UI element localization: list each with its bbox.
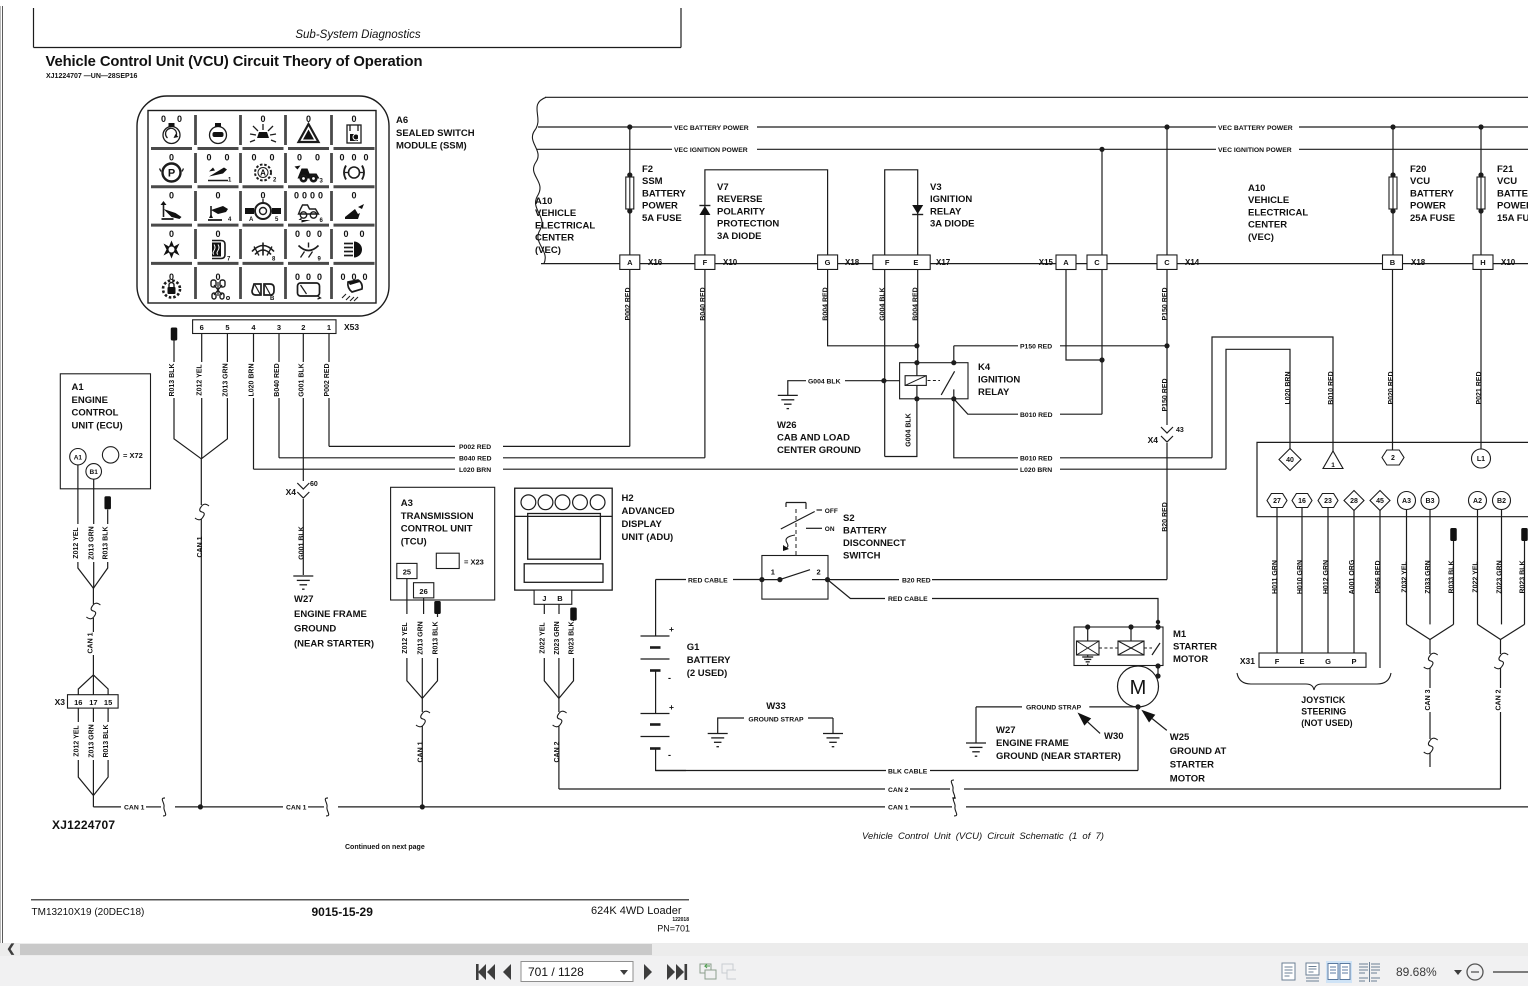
svg-text:V3: V3 — [930, 182, 942, 193]
svg-text:-: - — [668, 673, 671, 683]
svg-text:Z033 GRN: Z033 GRN — [1425, 560, 1432, 593]
svg-text:G001 BLK: G001 BLK — [298, 363, 305, 396]
svg-text:F21: F21 — [1497, 164, 1514, 175]
svg-text:122018: 122018 — [672, 917, 689, 923]
svg-text:60: 60 — [310, 481, 318, 488]
svg-text:IGNITION: IGNITION — [930, 194, 972, 205]
svg-text:UNIT (ECU): UNIT (ECU) — [72, 420, 123, 431]
svg-text:MOTOR: MOTOR — [1170, 773, 1205, 784]
svg-text:X18: X18 — [845, 258, 860, 267]
svg-text:BATTERY: BATTERY — [843, 526, 887, 537]
svg-text:REVERSE: REVERSE — [717, 194, 762, 205]
svg-text:TM13210X19 (20DEC18): TM13210X19 (20DEC18) — [32, 907, 145, 918]
svg-text:40: 40 — [1286, 457, 1294, 464]
svg-text:(2 USED): (2 USED) — [687, 668, 728, 679]
svg-text:B1: B1 — [90, 469, 99, 476]
svg-text:F: F — [885, 258, 890, 267]
svg-text:L020 BRN: L020 BRN — [1020, 467, 1052, 474]
svg-text:VEC IGNITION POWER: VEC IGNITION POWER — [1218, 147, 1292, 154]
svg-text:0: 0 — [315, 153, 320, 163]
svg-text:R023 BLK: R023 BLK — [569, 621, 576, 654]
svg-text:VCU: VCU — [1497, 176, 1517, 187]
svg-text:G: G — [1325, 657, 1331, 666]
svg-text:0: 0 — [215, 229, 220, 239]
svg-text:25: 25 — [403, 568, 411, 577]
svg-text:X4: X4 — [1148, 435, 1159, 445]
svg-text:G004 BLK: G004 BLK — [808, 378, 841, 385]
svg-text:DISCONNECT: DISCONNECT — [843, 538, 906, 549]
svg-text:B20 RED: B20 RED — [902, 577, 931, 584]
svg-text:BATTERY: BATTERY — [1410, 188, 1454, 199]
svg-text:CENTER: CENTER — [535, 233, 574, 244]
svg-text:X17: X17 — [936, 258, 951, 267]
svg-text:5: 5 — [225, 323, 229, 332]
svg-text:JOYSTICK: JOYSTICK — [1301, 695, 1346, 705]
svg-text:B040 RED: B040 RED — [274, 363, 281, 396]
svg-text:X15: X15 — [1039, 258, 1054, 267]
svg-text:BLK CABLE: BLK CABLE — [888, 768, 928, 775]
svg-text:GROUND: GROUND — [294, 624, 336, 635]
svg-text:E: E — [1299, 657, 1304, 666]
svg-text:RELAY: RELAY — [930, 206, 962, 217]
svg-text:ENGINE FRAME: ENGINE FRAME — [996, 738, 1069, 749]
svg-text:A2: A2 — [1473, 498, 1482, 505]
svg-text:16: 16 — [1298, 498, 1306, 505]
svg-text:R013 BLK: R013 BLK — [103, 724, 110, 757]
svg-text:25A FUSE: 25A FUSE — [1410, 213, 1455, 224]
svg-text:B: B — [270, 296, 275, 302]
svg-text:P: P — [168, 168, 175, 180]
svg-text:B040 RED: B040 RED — [700, 287, 707, 320]
svg-text:Z032 YEL: Z032 YEL — [1402, 561, 1409, 593]
svg-text:15A FUSE: 15A FUSE — [1497, 213, 1528, 224]
svg-text:TRANSMISSION: TRANSMISSION — [401, 511, 474, 522]
svg-text:P002 RED: P002 RED — [459, 444, 491, 451]
svg-text:0: 0 — [363, 153, 368, 163]
svg-text:-: - — [668, 750, 671, 760]
svg-text:2: 2 — [817, 568, 821, 577]
svg-text:F: F — [1275, 657, 1280, 666]
svg-text:0: 0 — [206, 153, 211, 163]
svg-text:CAN 2: CAN 2 — [1496, 689, 1503, 710]
svg-text:W27: W27 — [996, 725, 1016, 736]
svg-text:P002 RED: P002 RED — [324, 363, 331, 396]
svg-text:P020 RED: P020 RED — [1388, 371, 1395, 404]
svg-text:0: 0 — [297, 153, 302, 163]
svg-text:R013 BLK: R013 BLK — [169, 363, 176, 396]
svg-text:H: H — [1480, 258, 1485, 267]
svg-text:R013 BLK: R013 BLK — [433, 621, 440, 654]
svg-text:R033 BLK: R033 BLK — [1449, 560, 1456, 593]
svg-text:Z023 GRN: Z023 GRN — [554, 621, 561, 654]
svg-text:E: E — [913, 258, 918, 267]
svg-text:0: 0 — [295, 229, 300, 239]
svg-text:624K 4WD Loader: 624K 4WD Loader — [591, 905, 682, 917]
svg-text:P066 RED: P066 RED — [1375, 560, 1382, 593]
svg-text:VEHICLE: VEHICLE — [535, 208, 576, 219]
svg-text:RELAY: RELAY — [978, 387, 1010, 398]
svg-text:(VEC): (VEC) — [535, 245, 561, 256]
svg-text:1: 1 — [1331, 462, 1335, 469]
svg-text:X31: X31 — [1240, 656, 1255, 666]
svg-text:W26: W26 — [777, 420, 797, 431]
svg-text:Z022 YEL: Z022 YEL — [1473, 561, 1480, 593]
svg-text:26: 26 — [419, 587, 427, 596]
svg-text:VCU: VCU — [1410, 176, 1430, 187]
svg-text:ELECTRICAL: ELECTRICAL — [1248, 207, 1308, 218]
svg-text:0: 0 — [310, 191, 315, 201]
svg-text:A6: A6 — [396, 115, 408, 126]
svg-text:3A DIODE: 3A DIODE — [930, 219, 975, 230]
svg-text:17: 17 — [89, 698, 97, 707]
svg-text:CAN 1: CAN 1 — [88, 632, 95, 653]
svg-text:(NOT USED): (NOT USED) — [1301, 718, 1352, 728]
svg-text:45: 45 — [1376, 498, 1384, 505]
svg-text:0: 0 — [224, 153, 229, 163]
svg-text:SEALED SWITCH: SEALED SWITCH — [396, 128, 475, 139]
svg-text:Vehicle Control Unit (VCU) Cir: Vehicle Control Unit (VCU) Circuit Theor… — [46, 54, 423, 70]
svg-text:H2: H2 — [622, 493, 634, 504]
svg-text:Z022 YEL: Z022 YEL — [539, 622, 546, 654]
svg-text:P002 RED: P002 RED — [625, 287, 632, 320]
svg-text:23: 23 — [1324, 498, 1332, 505]
svg-text:F20: F20 — [1410, 164, 1426, 175]
svg-text:0: 0 — [351, 191, 356, 201]
svg-text:OFF: OFF — [825, 508, 838, 515]
svg-text:0: 0 — [343, 229, 348, 239]
svg-text:B040 RED: B040 RED — [459, 456, 492, 463]
svg-text:C: C — [1164, 258, 1170, 267]
svg-text:GROUND AT: GROUND AT — [1170, 746, 1227, 757]
svg-text:0: 0 — [161, 114, 166, 124]
svg-text:X14: X14 — [1185, 258, 1200, 267]
svg-text:1: 1 — [327, 323, 331, 332]
svg-text:VEC IGNITION POWER: VEC IGNITION POWER — [674, 147, 748, 154]
svg-text:CONTROL: CONTROL — [72, 408, 119, 419]
svg-text:MODULE (SSM): MODULE (SSM) — [396, 141, 467, 152]
svg-text:W30: W30 — [1104, 731, 1124, 742]
svg-text:0: 0 — [318, 191, 323, 201]
svg-text:G1: G1 — [687, 642, 700, 653]
svg-text:F: F — [703, 258, 708, 267]
svg-text:(NEAR STARTER): (NEAR STARTER) — [294, 638, 374, 649]
svg-text:0: 0 — [251, 153, 256, 163]
svg-text:X10: X10 — [723, 258, 738, 267]
svg-text:POLARITY: POLARITY — [717, 206, 766, 217]
svg-text:0: 0 — [317, 272, 322, 282]
svg-text:0: 0 — [340, 272, 345, 282]
svg-text:CENTER: CENTER — [1248, 220, 1287, 231]
svg-text:P150 RED: P150 RED — [1162, 378, 1169, 411]
svg-text:C: C — [1094, 258, 1100, 267]
svg-text:H011 GRN: H011 GRN — [1272, 560, 1279, 594]
svg-text:F2: F2 — [642, 164, 653, 175]
svg-text:3: 3 — [277, 323, 281, 332]
svg-text:POWER: POWER — [1410, 201, 1446, 212]
svg-text:701 / 1128: 701 / 1128 — [528, 965, 584, 979]
svg-text:STARTER: STARTER — [1173, 642, 1217, 653]
svg-text:0: 0 — [306, 272, 311, 282]
svg-text:B010 RED: B010 RED — [1328, 371, 1335, 404]
svg-text:GROUND (NEAR STARTER): GROUND (NEAR STARTER) — [996, 751, 1121, 762]
svg-text:0: 0 — [169, 229, 174, 239]
svg-text:CAN 1: CAN 1 — [286, 805, 307, 812]
svg-text:ENGINE: ENGINE — [72, 395, 108, 406]
svg-text:W27: W27 — [294, 594, 314, 605]
svg-text:1: 1 — [771, 568, 775, 577]
svg-text:CAN 1: CAN 1 — [197, 536, 204, 557]
svg-text:A001 ORG: A001 ORG — [1349, 559, 1356, 594]
svg-text:XJ1224707 —UN—28SEP16: XJ1224707 —UN—28SEP16 — [46, 73, 138, 80]
svg-text:3A DIODE: 3A DIODE — [717, 231, 762, 242]
svg-text:Z023 GRN: Z023 GRN — [1497, 560, 1504, 593]
svg-text:RED CABLE: RED CABLE — [888, 596, 928, 603]
svg-text:P021 RED: P021 RED — [1476, 371, 1483, 404]
svg-text:6: 6 — [200, 323, 204, 332]
svg-text:0: 0 — [339, 153, 344, 163]
svg-text:43: 43 — [1176, 427, 1184, 434]
svg-text:27: 27 — [1273, 498, 1281, 505]
svg-text:0: 0 — [359, 229, 364, 239]
svg-text:0: 0 — [269, 153, 274, 163]
svg-text:XJ1224707: XJ1224707 — [52, 818, 115, 832]
svg-text:Continued on next page: Continued on next page — [345, 844, 425, 851]
svg-text:+: + — [669, 624, 674, 634]
svg-text:2: 2 — [301, 323, 305, 332]
svg-text:MOTOR: MOTOR — [1173, 654, 1208, 665]
svg-text:CENTER GROUND: CENTER GROUND — [777, 445, 861, 456]
svg-text:GROUND STRAP: GROUND STRAP — [1026, 705, 1082, 712]
svg-text:G004 BLK: G004 BLK — [906, 413, 913, 446]
svg-text:X10: X10 — [1501, 258, 1516, 267]
svg-text:X53: X53 — [344, 322, 359, 332]
svg-text:(TCU): (TCU) — [401, 536, 427, 547]
svg-text:STEERING: STEERING — [1301, 707, 1346, 717]
svg-text:IGNITION: IGNITION — [978, 375, 1020, 386]
svg-text:CAN 1: CAN 1 — [888, 805, 909, 812]
svg-text:STARTER: STARTER — [1170, 760, 1214, 771]
svg-text:POWER: POWER — [642, 201, 678, 212]
svg-text:PROTECTION: PROTECTION — [717, 219, 779, 230]
svg-text:0: 0 — [317, 229, 322, 239]
svg-text:CAN 2: CAN 2 — [888, 787, 909, 794]
svg-text:B010 RED: B010 RED — [1020, 412, 1053, 419]
svg-text:DISPLAY: DISPLAY — [622, 519, 663, 530]
svg-text:K4: K4 — [978, 362, 991, 373]
svg-text:CAN 1: CAN 1 — [417, 741, 424, 762]
svg-text:0: 0 — [351, 153, 356, 163]
svg-text:R023 BLK: R023 BLK — [1520, 560, 1527, 593]
svg-text:CAN 3: CAN 3 — [1425, 689, 1432, 710]
svg-text:0: 0 — [169, 153, 174, 163]
svg-text:Z013 GRN: Z013 GRN — [89, 526, 96, 559]
svg-text:CAN 2: CAN 2 — [554, 741, 561, 762]
svg-text:B004 RED: B004 RED — [913, 287, 920, 320]
svg-text:Z012 YEL: Z012 YEL — [402, 622, 409, 654]
svg-text:M: M — [1130, 677, 1147, 699]
svg-text:16: 16 — [74, 698, 82, 707]
svg-text:+: + — [669, 702, 674, 712]
svg-text:B: B — [557, 594, 563, 603]
svg-text:M1: M1 — [1173, 629, 1187, 640]
svg-text:W33: W33 — [766, 701, 786, 712]
svg-text:B3: B3 — [1426, 498, 1435, 505]
svg-text:Z012 YEL: Z012 YEL — [197, 364, 204, 396]
svg-text:5A FUSE: 5A FUSE — [642, 213, 682, 224]
svg-text:= X23: = X23 — [464, 558, 484, 567]
svg-text:0: 0 — [302, 191, 307, 201]
svg-text:0: 0 — [295, 272, 300, 282]
svg-text:ADVANCED: ADVANCED — [622, 506, 675, 517]
svg-text:P: P — [1351, 657, 1356, 666]
svg-text:= X72: = X72 — [123, 451, 143, 460]
svg-text:UNIT (ADU): UNIT (ADU) — [622, 532, 674, 543]
svg-text:G001 BLK: G001 BLK — [298, 526, 305, 559]
svg-text:POWER: POWER — [1497, 201, 1528, 212]
svg-text:BATTERY: BATTERY — [642, 188, 686, 199]
svg-text:15: 15 — [104, 698, 112, 707]
svg-text:B004 RED: B004 RED — [823, 287, 830, 320]
svg-text:9015-15-29: 9015-15-29 — [312, 905, 374, 919]
svg-text:BATTERY: BATTERY — [1497, 188, 1528, 199]
svg-text:(VEC): (VEC) — [1248, 232, 1274, 243]
svg-text:B2: B2 — [1497, 498, 1506, 505]
svg-text:G004 BLK: G004 BLK — [880, 287, 887, 320]
svg-text:Z012 YEL: Z012 YEL — [73, 725, 80, 757]
svg-text:V7: V7 — [717, 182, 729, 193]
svg-text:0: 0 — [294, 191, 299, 201]
svg-text:A10: A10 — [1248, 183, 1265, 194]
svg-text:J: J — [542, 594, 546, 603]
svg-text:Z013 GRN: Z013 GRN — [417, 621, 424, 654]
svg-text:A: A — [1063, 258, 1069, 267]
svg-text:0: 0 — [169, 191, 174, 201]
svg-text:A3: A3 — [1402, 498, 1411, 505]
svg-text:B20 RED: B20 RED — [1162, 502, 1169, 532]
svg-text:ENGINE FRAME: ENGINE FRAME — [294, 609, 367, 620]
svg-text:CAN 1: CAN 1 — [124, 805, 145, 812]
svg-text:X4: X4 — [286, 487, 297, 497]
svg-text:R013 BLK: R013 BLK — [103, 526, 110, 559]
svg-text:P150 RED: P150 RED — [1020, 344, 1052, 351]
svg-text:VEHICLE: VEHICLE — [1248, 195, 1289, 206]
svg-text:Z012 YEL: Z012 YEL — [73, 527, 80, 559]
svg-text:RED CABLE: RED CABLE — [688, 577, 728, 584]
svg-text:A: A — [260, 169, 266, 178]
svg-text:28: 28 — [1350, 498, 1358, 505]
svg-text:Sub-System Diagnostics: Sub-System Diagnostics — [295, 29, 421, 41]
svg-text:Z013 GRN: Z013 GRN — [88, 724, 95, 757]
svg-text:CONTROL UNIT: CONTROL UNIT — [401, 524, 473, 535]
svg-text:Z013 GRN: Z013 GRN — [222, 363, 229, 396]
svg-text:H012 GRN: H012 GRN — [1323, 560, 1330, 594]
svg-text:PN=701: PN=701 — [657, 924, 690, 934]
svg-text:X16: X16 — [648, 258, 663, 267]
svg-text:0: 0 — [215, 191, 220, 201]
svg-text:VEC BATTERY POWER: VEC BATTERY POWER — [674, 125, 749, 132]
svg-text:0: 0 — [306, 229, 311, 239]
svg-text:P150 RED: P150 RED — [1162, 287, 1169, 320]
svg-text:H010 GRN: H010 GRN — [1297, 560, 1304, 594]
svg-text:A1: A1 — [72, 382, 85, 393]
svg-text:G: G — [825, 258, 831, 267]
svg-text:L1: L1 — [1477, 456, 1485, 463]
svg-text:L020 BRN: L020 BRN — [249, 363, 256, 396]
svg-text:VEC BATTERY POWER: VEC BATTERY POWER — [1218, 125, 1293, 132]
svg-text:X18: X18 — [1411, 258, 1426, 267]
svg-text:A: A — [249, 217, 254, 223]
svg-text:Vehicle Control Unit (VCU) Cir: Vehicle Control Unit (VCU) Circuit Schem… — [862, 831, 1104, 842]
svg-text:2: 2 — [1391, 455, 1395, 462]
svg-text:BATTERY: BATTERY — [687, 655, 731, 666]
svg-text:L020 BRN: L020 BRN — [1285, 371, 1292, 404]
svg-text:SSM: SSM — [642, 176, 663, 187]
svg-text:L020 BRN: L020 BRN — [459, 467, 491, 474]
svg-text:SWITCH: SWITCH — [843, 551, 881, 562]
svg-text:B010 RED: B010 RED — [1020, 456, 1053, 463]
svg-text:0: 0 — [351, 114, 356, 124]
svg-text:0: 0 — [177, 114, 182, 124]
svg-text:W25: W25 — [1170, 732, 1190, 743]
svg-text:CAB AND LOAD: CAB AND LOAD — [777, 433, 850, 444]
svg-text:0: 0 — [260, 114, 265, 124]
svg-text:B: B — [1390, 258, 1396, 267]
svg-text:A10: A10 — [535, 196, 552, 207]
svg-text:A: A — [627, 258, 633, 267]
svg-text:S2: S2 — [843, 513, 855, 524]
svg-text:X3: X3 — [55, 697, 66, 707]
svg-text:A1: A1 — [74, 455, 83, 462]
svg-text:GROUND STRAP: GROUND STRAP — [748, 717, 804, 724]
svg-text:ELECTRICAL: ELECTRICAL — [535, 220, 595, 231]
svg-text:ON: ON — [825, 526, 835, 533]
svg-text:A3: A3 — [401, 498, 413, 509]
svg-text:0: 0 — [362, 272, 367, 282]
